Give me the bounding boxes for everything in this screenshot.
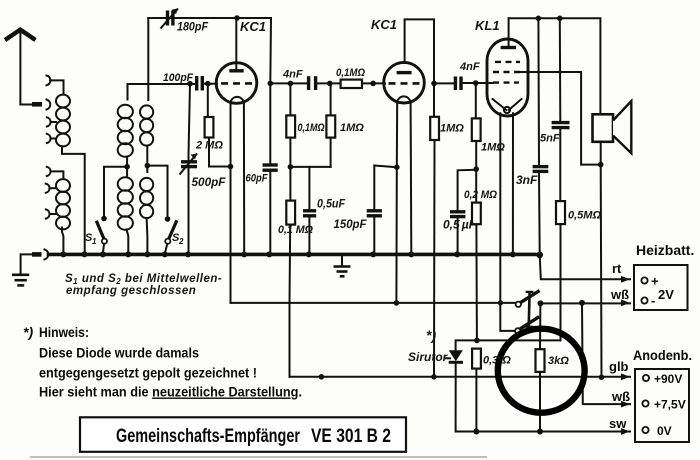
wire diode to 0V: [456, 364, 630, 432]
node 0.5uF2: [473, 166, 479, 172]
ground plug bar: [32, 252, 42, 257]
svg-text:2 MΩ: 2 MΩ: [195, 140, 223, 152]
svg-text:VE 301 B 2: VE 301 B 2: [311, 426, 391, 447]
wire coupling2 to C4n2: [434, 82, 454, 84]
tube V3 KL1 envelope: [487, 39, 528, 116]
svg-text:3kΩ: 3kΩ: [548, 355, 569, 367]
battery box Anodenb: [635, 369, 689, 442]
V1 grid dashes: [221, 82, 254, 85]
resistor R 1M D anode load V2: [433, 83, 435, 116]
variable capacitor C 180pF plates: [168, 11, 173, 26]
node bus-S1: [100, 251, 106, 257]
node bus-C05: [306, 251, 312, 257]
svg-text:wß: wß: [610, 287, 629, 302]
Anodenb +90V terminal: [643, 375, 649, 381]
resistor R 1M E grid leak KL1: [475, 83, 477, 118]
top rail right: [509, 18, 601, 113]
capacitor C 5nF plates: [552, 123, 570, 128]
svg-text:empfang geschlossen: empfang geschlossen: [66, 285, 196, 297]
capacitor C 0.5uF plates: [303, 211, 316, 216]
svg-text:2V: 2V: [658, 287, 674, 302]
tuning coil L3 top lead: [127, 84, 129, 100]
wire L4 tap to S2: [147, 166, 167, 219]
V2 filament right leg: [410, 102, 413, 254]
node fil2 wire2: [394, 300, 400, 306]
svg-text:Hinweis:: Hinweis:: [39, 324, 89, 340]
wire C4n to R01h: [317, 82, 340, 84]
svg-text:-: -: [651, 293, 655, 308]
node rail-5nF: [557, 15, 563, 21]
variable capacitor C 500pF plates: [181, 162, 197, 167]
wire 150pF branch: [374, 166, 397, 254]
wire L1 bottom to bus: [62, 146, 85, 253]
resistor R 0.1M series horizontal: [341, 80, 362, 88]
node rail-3nF: [536, 15, 542, 21]
resistor R 2M: [207, 84, 209, 117]
L2 tap stubs: [50, 187, 57, 189]
svg-text:3nF: 3nF: [516, 173, 538, 187]
V1 filament right leg to bus: [243, 102, 245, 254]
V2 filament: [397, 96, 410, 103]
wire bias to anode wss: [582, 303, 630, 404]
faint bottom scan line: [30, 456, 487, 458]
resistor R 0.1M C vertical: [289, 167, 291, 201]
antenna coil L1 winding top tap cup: [47, 76, 51, 86]
L1 tap cup 2: [47, 117, 51, 126]
svg-text:0V: 0V: [657, 424, 672, 438]
tube V1 KC1 envelope: [216, 63, 257, 104]
switch S3a lever: [521, 291, 540, 303]
node bus-fil3: [510, 251, 516, 257]
node bus-S2: [162, 251, 168, 257]
antenna jack cup: [47, 100, 51, 110]
node 0.3k bottom: [473, 429, 479, 435]
wire C4n2 to KL1 grid: [463, 82, 494, 84]
reaction coil L4 lower winding: [140, 166, 153, 218]
wire to 0.5uF2: [458, 170, 477, 254]
node bus-fil1: [241, 251, 247, 257]
wire 0.5uF drop: [308, 167, 310, 254]
svg-text:glb: glb: [609, 359, 629, 374]
svg-text:180pF: 180pF: [177, 20, 209, 34]
V3 filament left leg to switch: [500, 113, 515, 331]
ground bus wire: [49, 253, 540, 257]
svg-text:entgegengesetzt gepolt gezeic: entgegengesetzt gepolt gezeichnet !: [39, 365, 257, 381]
node bus-C60: [266, 251, 272, 257]
svg-text:60pF: 60pF: [246, 173, 268, 185]
arrowhead wss2: [621, 401, 630, 408]
svg-text:1: 1: [92, 237, 97, 246]
svg-text:Anodenb.: Anodenb.: [633, 347, 692, 363]
node 0.3k top: [474, 338, 480, 344]
V3 screen grid row + wire to speaker loop: [493, 71, 521, 73]
resistor R 0.2M: [475, 169, 477, 203]
svg-text:4nF: 4nF: [282, 69, 303, 81]
svg-text:rt: rt: [612, 261, 622, 276]
Anodenb 0V terminal: [642, 427, 648, 433]
arrowhead rt: [621, 276, 630, 283]
svg-text:4nF: 4nF: [459, 61, 480, 73]
switch S2 lever: [169, 220, 177, 239]
switch S3 link bar: [527, 292, 530, 328]
emphasis circle: [498, 329, 585, 413]
battery box Heizbatt: [634, 265, 688, 310]
wire S1 to bus: [103, 244, 104, 254]
svg-text:0,5MΩ: 0,5MΩ: [568, 210, 601, 222]
wire node to 1MB bottom: [290, 166, 330, 168]
V1 anode: [235, 18, 237, 71]
V1 filament left leg to wire2: [230, 102, 232, 303]
node wire3 a: [319, 374, 325, 380]
wire antenna to plug: [20, 104, 32, 106]
svg-text:150pF: 150pF: [334, 217, 368, 231]
capacitor C 150pF plates: [367, 211, 382, 216]
switch S3b lever: [520, 317, 539, 329]
resistor R 0.3k: [472, 349, 481, 369]
C500 arrow: [180, 154, 198, 175]
wire R01h to grid2: [362, 82, 385, 84]
wire tap to L1 top: [50, 80, 64, 94]
C180 arrow: [161, 9, 179, 29]
title box: [80, 417, 406, 452]
svg-text:wß: wß: [611, 389, 630, 404]
tube V2 KC1 envelope: [384, 62, 425, 103]
capacitor C 60pF plates: [263, 165, 278, 170]
svg-text:Sirutor: Sirutor: [408, 350, 449, 364]
antenna A1: [5, 30, 36, 105]
+90V rail wire3: [290, 376, 631, 378]
L2 tap cup 2: [46, 184, 50, 193]
wire L4 bottom to bus: [146, 218, 149, 254]
wire L3 mid tap: [126, 157, 128, 167]
anode1 feed line with 60pF: [269, 18, 272, 254]
V1 filament: [231, 97, 244, 104]
node fil2-150pF: [394, 164, 400, 170]
wire coupling to C4n: [270, 82, 307, 84]
node bus-C05b: [454, 251, 460, 257]
wire2 contact to heizbatt: [540, 302, 630, 304]
svg-text:KC1: KC1: [240, 19, 266, 34]
antenna coil L1 upper winding: [56, 95, 70, 147]
switch S3a contact circle: [516, 302, 521, 307]
svg-text:0,5uF: 0,5uF: [317, 197, 346, 211]
node L3 tap: [124, 164, 130, 170]
node R1M-B top: [327, 81, 333, 87]
wire speaker bottom: [600, 142, 602, 165]
wire L4 mid tap: [146, 146, 148, 166]
V3 grid dashes row1: [495, 61, 520, 63]
capacitor C 3nF plates: [533, 167, 549, 172]
bias rail wire y340: [456, 340, 561, 350]
node bus-L1b: [81, 251, 87, 257]
svg-text:0,2 MΩ: 0,2 MΩ: [464, 189, 497, 201]
V2 filament left leg: [395, 102, 398, 303]
svg-text:Hier sieht man die neuzeitlich: Hier sieht man die neuzeitliche Darstell…: [39, 384, 302, 400]
svg-text:Diese Diode wurde damals: Diese Diode wurde damals: [39, 345, 199, 361]
V2 grid dashes: [389, 82, 422, 85]
node 2M top: [205, 81, 211, 87]
reaction coil L4 upper winding: [140, 105, 153, 145]
svg-text:100pF: 100pF: [163, 72, 193, 84]
switch S1 lever: [96, 221, 104, 239]
resistor R 0.5M: [556, 201, 565, 224]
wire tap to L2 top: [51, 171, 64, 179]
Heizbatt minus terminal: [641, 297, 647, 303]
node bus-L3: [125, 251, 131, 257]
svg-text:*): *): [426, 327, 436, 343]
tuning coil L3 lower winding: [118, 167, 133, 230]
node bus-L1: [60, 251, 66, 257]
svg-text:*): *): [23, 324, 33, 340]
node coupling1: [268, 81, 274, 87]
wire 500pF line: [189, 84, 191, 254]
antenna plug P1: [32, 102, 42, 107]
node bus-C500: [185, 251, 191, 257]
L1 tap cup 3: [47, 134, 51, 143]
node coupling2: [431, 81, 437, 87]
V3 grid1 dashes row3: [493, 81, 519, 83]
switch S1 feed wire: [104, 167, 127, 219]
wire rt from bus end: [540, 255, 630, 279]
node wire3 speaker: [599, 375, 605, 381]
switch S2 contact circle: [165, 239, 170, 244]
earth ground symbol: [12, 275, 29, 286]
antenna coil L2 lower winding: [56, 179, 70, 229]
node wire3 1MD: [431, 374, 437, 380]
node speaker-screen: [598, 162, 604, 168]
wire plug to earth: [21, 254, 32, 273]
node cathode1-2M: [228, 164, 234, 170]
svg-text:1MΩ: 1MΩ: [440, 123, 464, 135]
node S3a fixed contact: [537, 300, 543, 306]
reaction coil L4 top lead from 180pF: [147, 18, 149, 100]
node bias tap: [579, 300, 585, 306]
svg-text:+7,5V: +7,5V: [654, 398, 686, 412]
node L4 tap: [145, 163, 151, 169]
V2 anode loop to coupling2: [405, 19, 434, 83]
antenna coil L2 top tap cup: [47, 167, 51, 176]
Heizbatt plus terminal: [641, 277, 647, 283]
ground jack cup: [45, 249, 49, 259]
arrowhead glb: [621, 373, 630, 380]
svg-text:2: 2: [178, 237, 184, 246]
resistor R 0.1M A vertical: [288, 81, 294, 87]
svg-text:500pF: 500pF: [192, 175, 227, 189]
node gridKL1: [473, 80, 479, 86]
svg-text:0,1 MΩ: 0,1 MΩ: [278, 224, 313, 236]
arrowhead wss1: [621, 300, 630, 307]
V3 filament circle: [504, 107, 510, 113]
V2 plate bar: [397, 71, 412, 74]
wire L2 bottom to bus: [62, 228, 63, 254]
wire C100 to grid: [204, 83, 217, 85]
svg-text:KL1: KL1: [475, 18, 500, 33]
svg-text:sw: sw: [609, 416, 627, 431]
V3 anode: [508, 18, 510, 47]
node bus-end: [536, 252, 543, 259]
loudspeaker LS: [593, 101, 632, 153]
capacitor C 4nF stage2: [309, 76, 316, 90]
svg-text:Gemeinschafts-Empfänger: Gemeinschafts-Empfänger: [116, 426, 300, 447]
wire speaker line to +90V rail: [600, 165, 603, 378]
diode D Sirutor: [449, 350, 463, 362]
node bus-L4: [144, 251, 150, 257]
tuning coil L3 upper winding: [118, 105, 133, 157]
V3 filament V shape: [493, 99, 522, 110]
switch S1 contact circle: [102, 239, 107, 244]
heater minus wire2: [231, 302, 517, 304]
node anode1: [234, 15, 240, 21]
V3 filament right leg to bus: [512, 113, 514, 253]
node grid2: [370, 81, 376, 87]
5nF line: [559, 18, 562, 201]
svg-text:0,1MΩ: 0,1MΩ: [298, 122, 325, 134]
wire S3 contacts to 3k top: [539, 303, 541, 349]
L2 tap cup 3: [46, 209, 50, 218]
top rail stage1: [148, 17, 271, 19]
svg-text:1MΩ: 1MΩ: [340, 122, 364, 134]
resistor R 3k: [536, 349, 545, 372]
capacitor C 0.5uF output plates: [450, 212, 465, 217]
L1 tap stubs upper: [51, 121, 57, 123]
svg-text:KC1: KC1: [371, 17, 397, 32]
svg-text:Heizbatt.: Heizbatt.: [636, 242, 694, 258]
node bus-C150: [370, 251, 376, 257]
capacitor C 100pF plates: [197, 76, 203, 91]
arrowhead sw: [621, 428, 630, 435]
svg-text:+90V: +90V: [654, 372, 682, 386]
3nF line: [538, 18, 539, 253]
node 500pF top: [187, 81, 193, 87]
chassis ground symbol mid: [334, 254, 351, 276]
capacitor C 4nF output: [455, 77, 461, 91]
wire L3 bottom to bus: [127, 230, 129, 254]
wire S2 to bus: [165, 244, 168, 254]
node 3k bottom: [537, 429, 543, 435]
svg-text:1MΩ: 1MΩ: [481, 142, 505, 154]
node decouple: [288, 164, 294, 170]
node bus-fil2: [408, 251, 414, 257]
node S2 top: [165, 216, 171, 222]
node S1 top: [101, 216, 107, 222]
svg-text:5nF: 5nF: [540, 133, 560, 145]
grid wire stage1: [128, 83, 196, 85]
svg-text:0,1MΩ: 0,1MΩ: [336, 67, 365, 79]
node fil3-wire2 blob: [498, 300, 503, 305]
resistor R 1M B vertical: [330, 83, 332, 115]
Anodenb +7,5V terminal: [642, 400, 648, 406]
switch S3b contact circle: [515, 328, 520, 333]
